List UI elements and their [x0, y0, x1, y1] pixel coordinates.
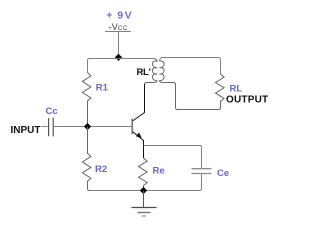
wire Cc to base — [54, 126, 131, 128]
wire input lead — [42, 126, 48, 128]
svg-text:Cc: Cc — [46, 106, 58, 117]
wire secondary top to RL — [160, 58, 221, 75]
wire top rail (left) + R1 branch top lead — [88, 59, 154, 73]
node emitter-ground junction dot — [140, 187, 147, 194]
transistor Q1 emitter lead — [133, 132, 144, 159]
svg-text:R1: R1 — [96, 83, 109, 94]
wire Vcc bar to rail — [118, 32, 120, 58]
transistor Q1 collector lead — [133, 84, 145, 121]
svg-text:INPUT: INPUT — [11, 125, 41, 136]
resistor RL — [216, 74, 225, 110]
wire Ce bottom lead — [200, 174, 202, 190]
Vcc terminal bar — [105, 31, 131, 33]
capacitor Ce — [192, 168, 212, 170]
svg-text:+9V: +9V — [106, 9, 131, 21]
resistor Re — [139, 158, 148, 191]
svg-text:RL: RL — [230, 84, 243, 95]
capacitor Cc — [48, 118, 50, 136]
wire emitter to Ce — [144, 145, 202, 147]
transformer secondary — [160, 61, 219, 109]
transistor Q1 base bar — [131, 119, 133, 135]
transformer primary RL' — [145, 59, 158, 113]
svg-text:Re: Re — [153, 166, 165, 177]
node base junction dot — [84, 123, 91, 130]
resistor R2 — [82, 127, 91, 191]
resistor R1 — [82, 73, 91, 127]
ground stem — [143, 191, 145, 208]
transistor Q1 emitter arrow — [136, 133, 142, 139]
wire bottom return — [90, 190, 200, 192]
svg-text:OUTPUT: OUTPUT — [226, 95, 268, 106]
svg-text:Ce: Ce — [217, 168, 229, 179]
svg-text:RL': RL' — [137, 67, 151, 78]
wire Ce top lead — [200, 146, 202, 169]
svg-text:R2: R2 — [95, 164, 107, 175]
ground — [132, 207, 157, 209]
node Vcc junction dot — [115, 54, 122, 61]
